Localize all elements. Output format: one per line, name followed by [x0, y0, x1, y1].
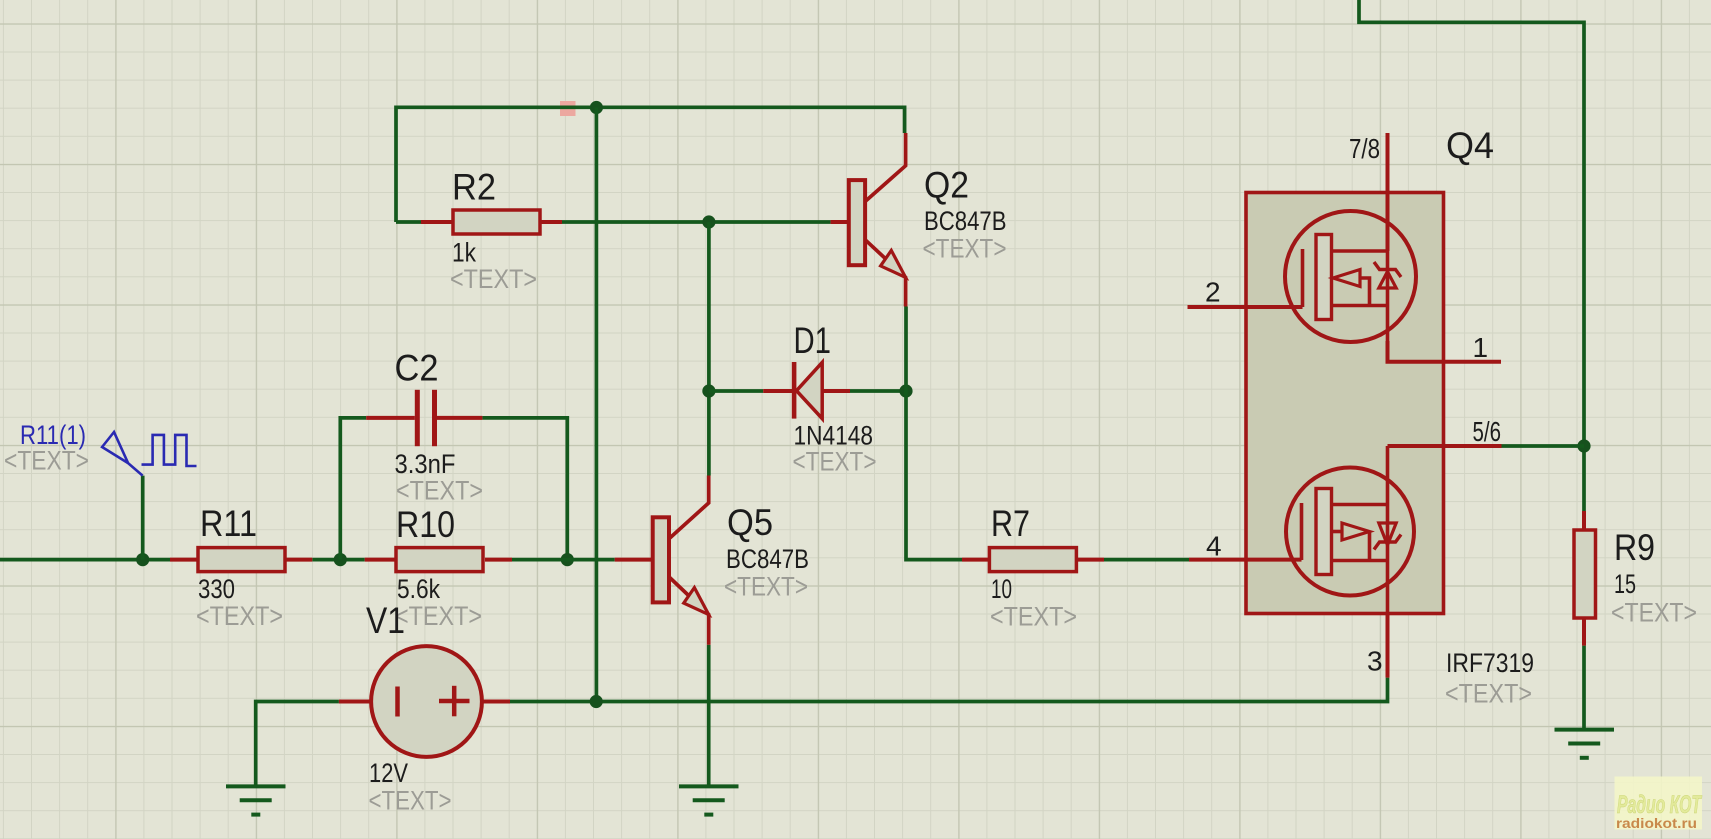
wire: D1 row right segment: [850, 389, 906, 393]
svg-text:IRF7319: IRF7319: [1446, 648, 1534, 678]
pin 2 lead (gate N-fet): [1188, 305, 1303, 309]
svg-text:R9: R9: [1614, 527, 1655, 568]
svg-text:<TEXT>: <TEXT>: [4, 446, 89, 476]
wire: top-right supply run to R9: [1359, 0, 1584, 511]
svg-text:Q5: Q5: [727, 502, 773, 543]
transistor Q2: [831, 133, 906, 307]
svg-text:<TEXT>: <TEXT>: [196, 601, 283, 631]
selection marker (pink square): [560, 101, 576, 116]
svg-text:<TEXT>: <TEXT>: [724, 572, 808, 602]
wire: C2 left branch: [340, 418, 366, 560]
svg-text:D1: D1: [794, 320, 832, 361]
svg-text:Q4: Q4: [1446, 125, 1494, 166]
wire: R9 bottom to ground: [1582, 646, 1586, 730]
pin 1 lead (source N-fet): [1388, 341, 1502, 362]
svg-text:<TEXT>: <TEXT>: [1445, 679, 1532, 709]
svg-text:<TEXT>: <TEXT>: [369, 786, 452, 816]
transistor Q5: [615, 476, 709, 645]
svg-text:R10: R10: [396, 504, 455, 545]
node: junction C2 left x=340: [334, 553, 347, 566]
resistor R9 (vertical): [1574, 511, 1596, 646]
node: junction +12V rail x=596: [590, 695, 603, 708]
wire: Q5 emitter to ground: [707, 645, 711, 787]
generator pulse waveform icon: [142, 435, 197, 466]
wire: 5/6 pin to supply vertical: [1502, 444, 1585, 448]
ground (Q5 emitter): [679, 786, 739, 814]
node: junction C2 right x=567: [561, 553, 574, 566]
capacitor C2: [366, 390, 482, 446]
resistor R7: [962, 548, 1104, 572]
svg-text:BC847B: BC847B: [924, 206, 1007, 236]
svg-text:2: 2: [1205, 277, 1221, 308]
svg-text:C2: C2: [395, 348, 439, 389]
wire: V1 negative to ground: [256, 702, 339, 787]
wire: vertical x=596 top rail to +12V rail: [595, 108, 599, 702]
svg-text:<TEXT>: <TEXT>: [396, 476, 483, 506]
svg-text:330: 330: [198, 574, 235, 604]
diode D1: [763, 362, 850, 419]
svg-text:15: 15: [1614, 569, 1636, 599]
pin 5/6 lead (drain P-fet): [1388, 444, 1502, 448]
svg-text:3.3nF: 3.3nF: [395, 449, 456, 479]
svg-text:4: 4: [1206, 531, 1222, 562]
resistor R2: [421, 210, 562, 234]
svg-text:3: 3: [1367, 646, 1383, 677]
generator probe marker: [102, 432, 143, 476]
svg-text:R2: R2: [452, 167, 496, 208]
resistor R10: [365, 548, 512, 572]
pin 7/8 lead (drain N-fet): [1386, 133, 1390, 251]
mosfet Q4 upper (N-channel with body diode): [1285, 211, 1416, 342]
svg-text:12V: 12V: [369, 758, 408, 788]
svg-text:<TEXT>: <TEXT>: [923, 234, 1007, 264]
svg-text:1: 1: [1473, 332, 1489, 363]
svg-text:7/8: 7/8: [1349, 133, 1380, 164]
wire: R7 output to Q4 pin4: [1104, 558, 1189, 562]
node: junction probe tap x=143: [136, 553, 149, 566]
node: junction D1 anode x=709: [702, 384, 715, 397]
wire: input row from left edge: [0, 558, 170, 562]
resistor R11: [170, 548, 312, 572]
node: junction top rail x=596: [590, 101, 603, 114]
voltage source V1: [339, 646, 510, 757]
svg-text:radiokot.ru: radiokot.ru: [1616, 815, 1697, 831]
svg-text:<TEXT>: <TEXT>: [1611, 598, 1697, 628]
svg-text:V1: V1: [366, 600, 405, 641]
node: junction base row x=709: [702, 215, 715, 228]
pin 4 lead (gate P-fet): [1189, 558, 1302, 562]
wire: probe drop vertical: [141, 476, 145, 560]
wire: R10 output to Q5 base: [512, 558, 615, 562]
wire: R2 left lead wire: [396, 220, 421, 224]
wire: top feedback rail R2/Q2: [396, 107, 905, 222]
wire: D1 row left segment: [709, 389, 763, 393]
watermark radiokot.ru: [1615, 777, 1703, 832]
wire: +12V rail V1 to Q4 pin3: [510, 678, 1388, 702]
ground (R9): [1555, 730, 1615, 758]
svg-text:<TEXT>: <TEXT>: [793, 447, 877, 477]
wire: R2 output to Q2 base row: [540, 220, 831, 224]
svg-text:BC847B: BC847B: [726, 544, 809, 574]
mosfet Q4 lower (P-channel with body diode): [1286, 446, 1414, 614]
svg-text:R11: R11: [200, 503, 257, 544]
svg-text:<TEXT>: <TEXT>: [990, 602, 1077, 632]
wire: vertical x=709 base row to Q5 collector: [707, 222, 711, 476]
wire: C2 right branch: [482, 418, 567, 560]
svg-text:R7: R7: [991, 503, 1030, 544]
node: junction 5/6 tap x=1584: [1577, 439, 1590, 452]
pin 3 lead (source P-fet): [1386, 614, 1390, 678]
svg-text:Q2: Q2: [924, 165, 969, 206]
svg-text:<TEXT>: <TEXT>: [395, 601, 482, 631]
ground (V1 negative): [226, 786, 286, 814]
mosfet pair Q4 package body: [1246, 193, 1444, 614]
wire: Q2 emitter down to R7 input: [906, 307, 962, 560]
svg-text:5/6: 5/6: [1473, 416, 1502, 447]
svg-text:10: 10: [991, 574, 1012, 604]
node: junction D1 cathode x=906: [899, 384, 912, 397]
svg-text:<TEXT>: <TEXT>: [450, 264, 537, 294]
svg-text:1k: 1k: [452, 238, 476, 268]
wire: between R11 and R10: [312, 558, 364, 562]
